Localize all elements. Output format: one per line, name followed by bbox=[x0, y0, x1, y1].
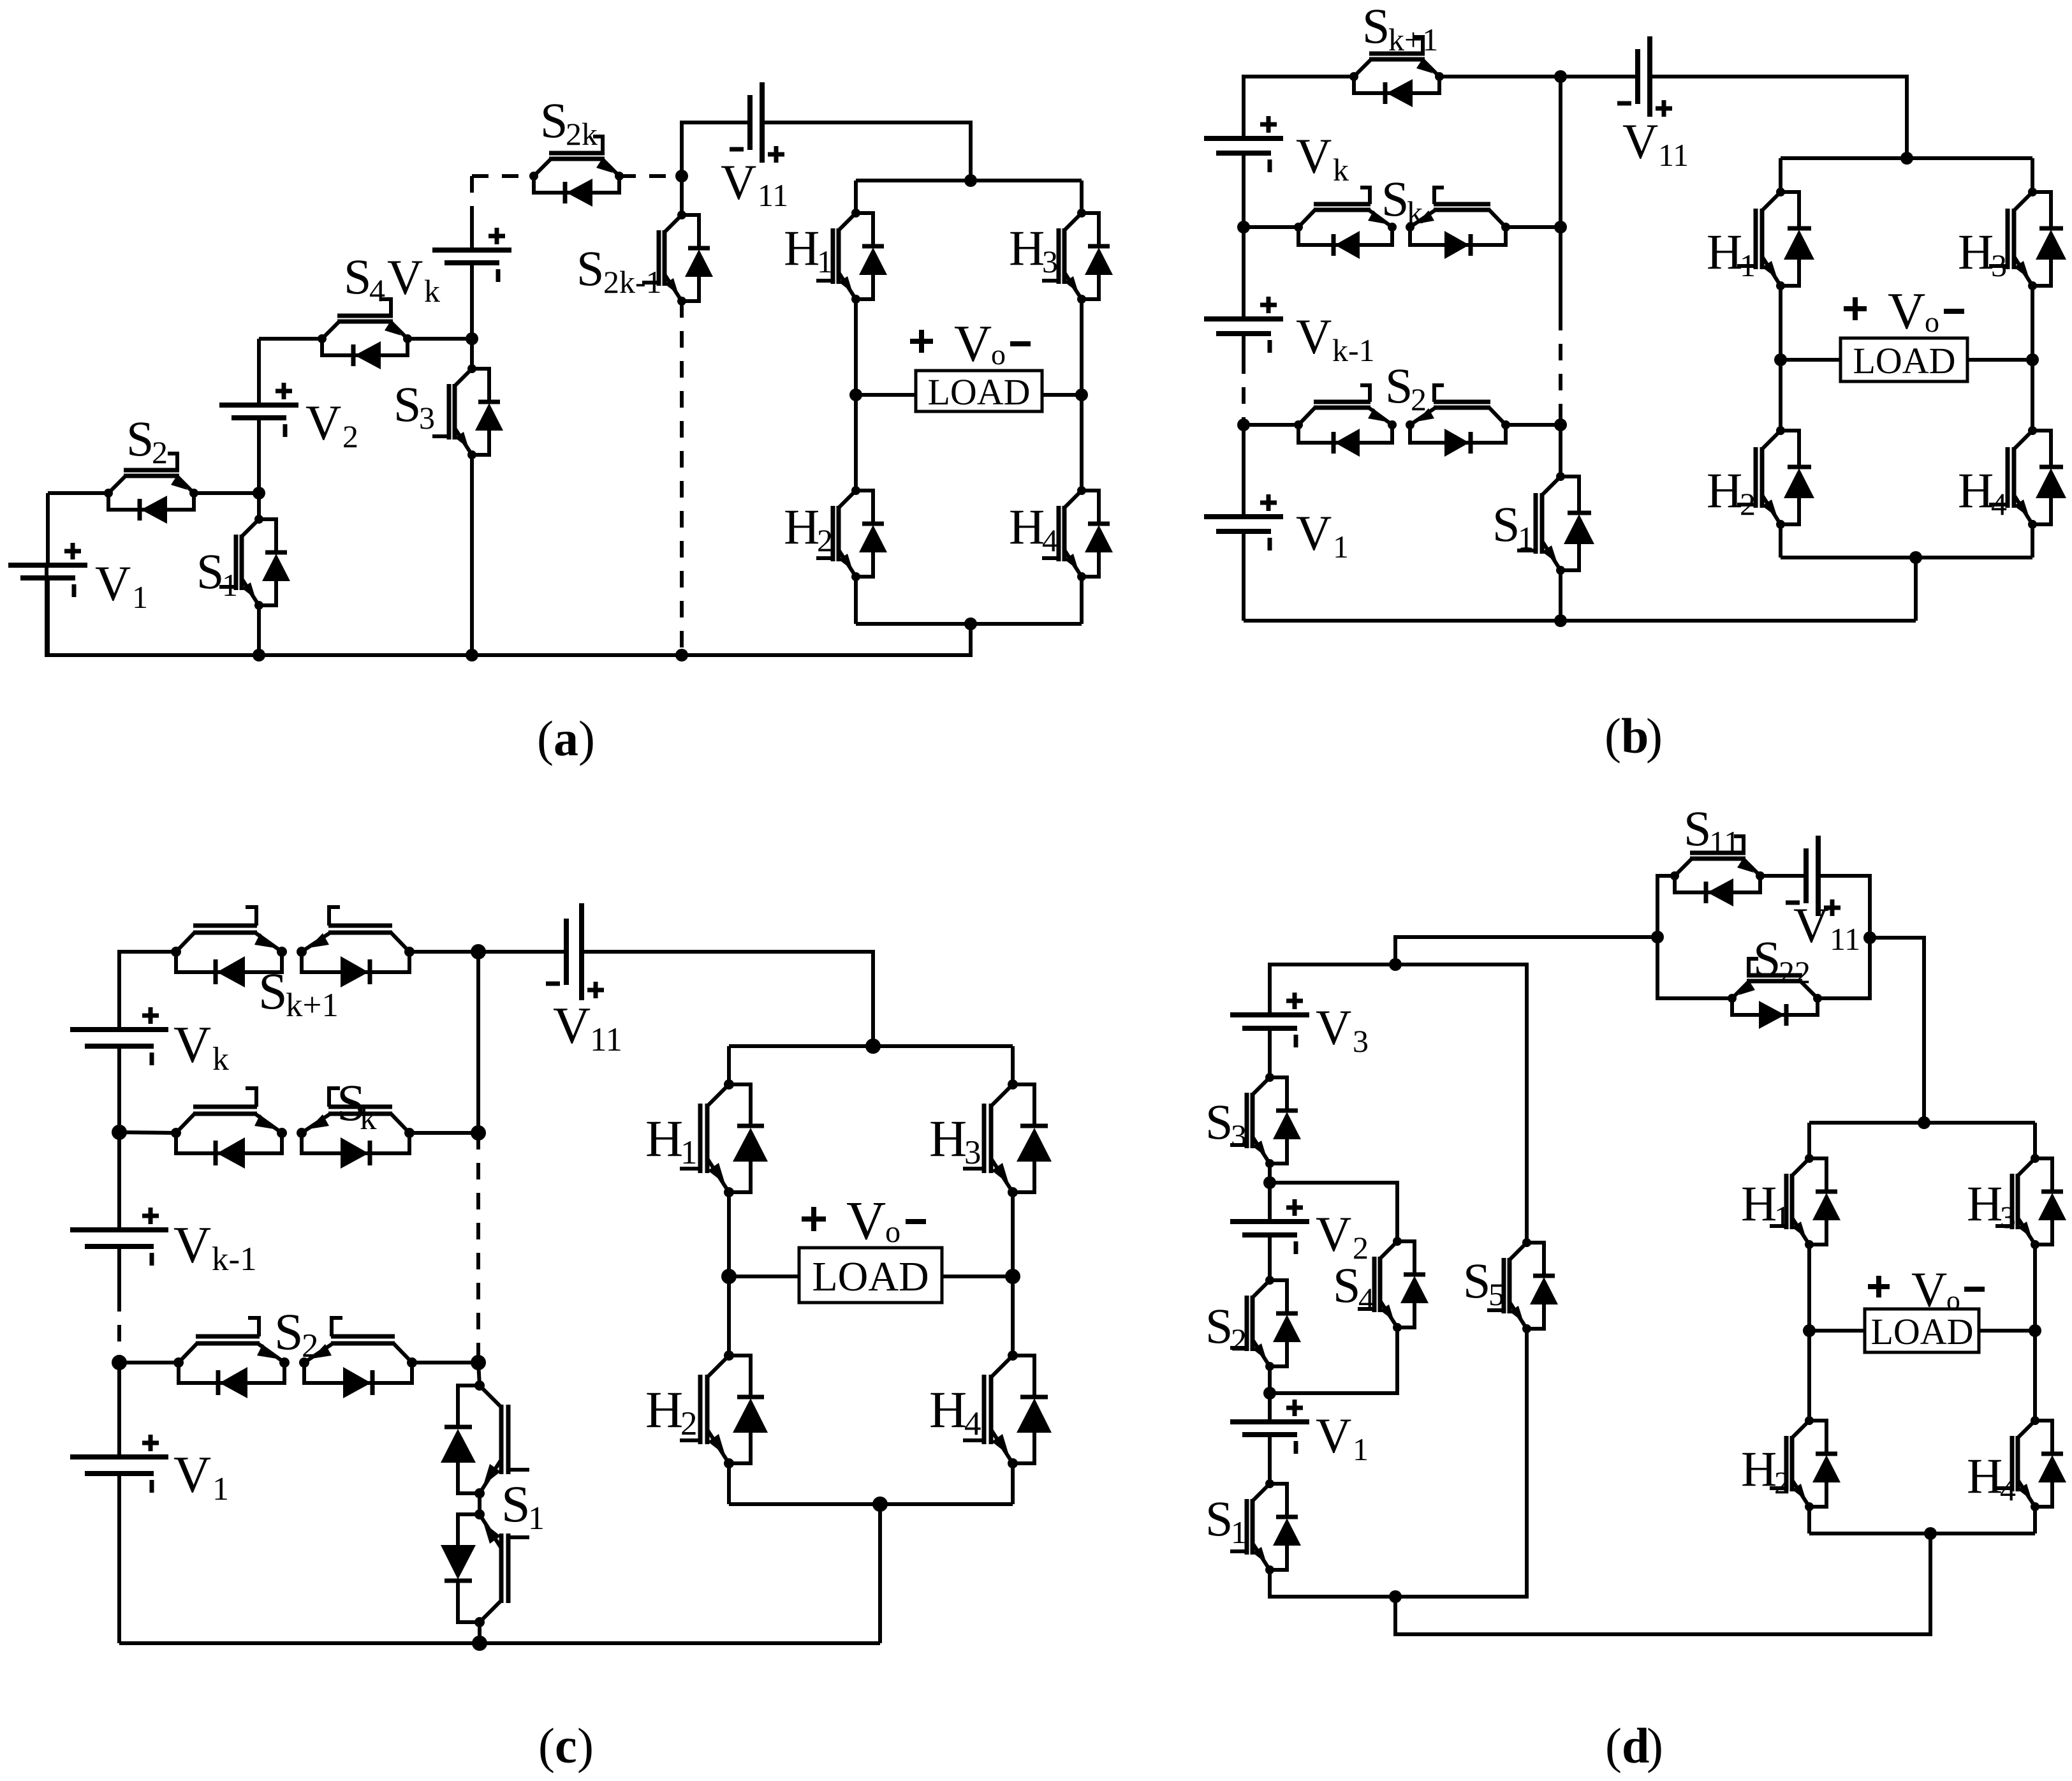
H-bridge top rail d bbox=[1809, 1116, 2035, 1129]
transistor Sk+1 bbox=[1349, 37, 1444, 107]
transistor H1 d bbox=[1770, 1123, 1841, 1249]
svg-text:a: a bbox=[554, 711, 578, 766]
wire rail to Sk bbox=[1244, 225, 1298, 229]
label V3 bbox=[1316, 1000, 1369, 1059]
mid rail right c bbox=[1005, 1192, 1020, 1284]
label H1 c bbox=[645, 1109, 698, 1171]
load label Vo d bbox=[1868, 1262, 1985, 1317]
transistor H1 bbox=[816, 181, 887, 304]
svg-text:H: H bbox=[1741, 1441, 1777, 1496]
svg-text:3: 3 bbox=[964, 1134, 981, 1171]
svg-text:S: S bbox=[1492, 496, 1520, 552]
svg-text:2k-1: 2k-1 bbox=[603, 264, 662, 300]
svg-text:3: 3 bbox=[1991, 248, 2007, 283]
svg-text:S: S bbox=[258, 962, 288, 1020]
wire node T to battery V11 bbox=[1561, 75, 1638, 78]
transistor H2 b bbox=[1737, 360, 1814, 558]
label Vk bbox=[387, 249, 440, 309]
label S1 c bbox=[501, 1475, 545, 1537]
bottom return wire d bbox=[1395, 1533, 1930, 1634]
svg-text:V: V bbox=[1888, 282, 1925, 340]
label H3 c bbox=[929, 1109, 981, 1171]
mid rail left c bbox=[721, 1192, 737, 1284]
label S2k bbox=[540, 92, 598, 152]
svg-text:1: 1 bbox=[680, 1134, 698, 1171]
left rail dashed segment bbox=[1242, 357, 1245, 425]
wire S2 to node A bbox=[194, 491, 259, 495]
battery Vk c bbox=[70, 1007, 168, 1132]
label S2 b bbox=[1385, 358, 1427, 417]
svg-text:1: 1 bbox=[1231, 1514, 1247, 1550]
battery V11 b bbox=[1617, 36, 1672, 117]
svg-text:V: V bbox=[95, 556, 131, 611]
node rail S2 c bbox=[112, 1355, 127, 1370]
svg-text:2: 2 bbox=[1740, 486, 1756, 522]
svg-text:S: S bbox=[1362, 0, 1390, 54]
svg-text:V: V bbox=[1316, 1000, 1351, 1055]
svg-text:S: S bbox=[1753, 931, 1781, 986]
wire H3 to mid rail bbox=[1075, 299, 1088, 401]
label S1 b bbox=[1492, 496, 1534, 556]
wire Sk to center column bbox=[1506, 221, 1567, 233]
label H4 d bbox=[1967, 1448, 2016, 1507]
transistor S1 d bbox=[1230, 1435, 1301, 1574]
caption (c) bbox=[538, 1718, 594, 1773]
label H4 c bbox=[929, 1380, 981, 1442]
mid rail left b bbox=[1774, 286, 1787, 366]
load box LOAD bbox=[856, 371, 1082, 413]
svg-text:5: 5 bbox=[1488, 1276, 1504, 1312]
svg-text:H: H bbox=[784, 220, 819, 276]
transistor S3 bbox=[432, 339, 503, 655]
label S1 d bbox=[1205, 1491, 1247, 1550]
wire S5 bottom to node B3 bbox=[1395, 1329, 1527, 1597]
wire rail to Sk c bbox=[119, 1132, 176, 1133]
svg-text:k-1: k-1 bbox=[1332, 332, 1375, 368]
wire node C up to battery V11 bbox=[682, 122, 750, 176]
H-bridge top rail bbox=[856, 174, 1082, 187]
node B1 junction bbox=[1263, 1164, 1276, 1189]
load box d bbox=[1809, 1309, 2035, 1352]
svg-text:H: H bbox=[1958, 462, 1994, 518]
label H4 b bbox=[1958, 462, 2007, 522]
svg-text:4: 4 bbox=[1991, 486, 2007, 522]
H-bridge bottom rail b bbox=[1781, 551, 2032, 564]
battery V2 d bbox=[1230, 1183, 1309, 1254]
svg-text:k+1: k+1 bbox=[286, 987, 339, 1024]
battery Vk-1 c bbox=[70, 1132, 168, 1295]
label H4 bbox=[1009, 499, 1058, 558]
wire T2 to S22 bbox=[1657, 937, 1732, 998]
svg-text:S: S bbox=[1381, 171, 1409, 226]
svg-text:V: V bbox=[1296, 128, 1332, 184]
bottom return rail bbox=[47, 565, 971, 661]
switch Sk+1 bidirectional c bbox=[171, 907, 415, 987]
svg-text:1: 1 bbox=[1333, 529, 1349, 565]
H-bridge bottom rail bbox=[856, 617, 1082, 630]
svg-text:k: k bbox=[1333, 152, 1349, 188]
label H1 d bbox=[1741, 1176, 1790, 1235]
svg-text:1: 1 bbox=[1740, 248, 1756, 283]
transistor S1 lower c bbox=[441, 1493, 529, 1643]
svg-text:H: H bbox=[1009, 220, 1045, 276]
label H2 b bbox=[1707, 462, 1756, 522]
label Sk+1 bbox=[1362, 0, 1438, 57]
transistor H2 d bbox=[1770, 1331, 1841, 1533]
label V1 d bbox=[1316, 1408, 1369, 1467]
svg-text:LOAD: LOAD bbox=[812, 1253, 929, 1300]
svg-text:1: 1 bbox=[212, 1471, 229, 1507]
svg-text:2: 2 bbox=[817, 522, 833, 558]
node A junction bbox=[253, 487, 265, 499]
transistor S2k bbox=[529, 137, 624, 207]
svg-text:3: 3 bbox=[2000, 1199, 2016, 1235]
transistor S4 d bbox=[1358, 1237, 1429, 1332]
svg-text:1: 1 bbox=[222, 567, 238, 603]
switch S2 bidirectional c bbox=[173, 1318, 417, 1398]
label S5 bbox=[1463, 1253, 1504, 1312]
label V11 bbox=[721, 154, 788, 213]
svg-text:H: H bbox=[1009, 499, 1045, 554]
svg-text:11: 11 bbox=[1830, 921, 1860, 957]
transistor H4 c bbox=[963, 1276, 1052, 1504]
svg-text:d: d bbox=[1622, 1718, 1649, 1773]
svg-text:c: c bbox=[555, 1718, 577, 1773]
svg-text:H: H bbox=[784, 499, 819, 554]
transistor S1 upper c bbox=[441, 1363, 529, 1498]
wire dashed S2k to node C bbox=[619, 174, 682, 178]
svg-text:2k: 2k bbox=[566, 116, 598, 152]
wire S2 to center c bbox=[412, 1355, 486, 1370]
svg-text:): ) bbox=[578, 711, 595, 766]
wire rail to S2 b bbox=[1244, 423, 1298, 427]
label S2 bbox=[126, 411, 168, 470]
svg-text:S: S bbox=[344, 249, 371, 304]
label V2 bbox=[305, 395, 358, 454]
battery V3 bbox=[1230, 993, 1309, 1047]
svg-text:H: H bbox=[645, 1109, 683, 1167]
wire dashed S2k-1 to bottom rail bbox=[680, 301, 684, 655]
wire S4 to node B2 bbox=[1270, 1327, 1397, 1393]
svg-text:S: S bbox=[1205, 1094, 1233, 1149]
load box c bbox=[729, 1248, 1013, 1303]
battery V2 bbox=[219, 339, 298, 493]
svg-text:S: S bbox=[1463, 1253, 1490, 1308]
svg-text:V: V bbox=[1622, 114, 1658, 169]
label H2 d bbox=[1741, 1441, 1790, 1500]
svg-text:k: k bbox=[360, 1100, 377, 1137]
svg-text:k+1: k+1 bbox=[1388, 22, 1438, 57]
label H2 c bbox=[645, 1380, 698, 1442]
bottom rail c bbox=[119, 1504, 880, 1651]
svg-text:2: 2 bbox=[342, 418, 358, 454]
svg-text:S: S bbox=[393, 376, 421, 432]
node B junction bbox=[466, 332, 478, 345]
label S4 d bbox=[1333, 1257, 1374, 1317]
transistor S3 d bbox=[1230, 1028, 1301, 1168]
svg-text:11: 11 bbox=[758, 177, 788, 213]
bottom rail b bbox=[1244, 558, 1916, 627]
svg-text:2: 2 bbox=[680, 1405, 698, 1442]
wire S4 to node B bbox=[408, 337, 472, 341]
svg-text:k: k bbox=[212, 1041, 229, 1077]
label S1 bbox=[196, 543, 238, 603]
svg-text:o: o bbox=[1925, 306, 1939, 338]
svg-text:H: H bbox=[929, 1109, 967, 1167]
battery Vk b bbox=[1204, 116, 1283, 227]
caption (d) bbox=[1605, 1718, 1663, 1773]
svg-text:11: 11 bbox=[1709, 824, 1740, 860]
wire S22 to node T3 bbox=[1818, 938, 1870, 998]
svg-text:S: S bbox=[274, 1303, 304, 1361]
svg-text:V: V bbox=[954, 314, 992, 373]
svg-text:S: S bbox=[1385, 358, 1413, 413]
label V1 b bbox=[1296, 505, 1349, 565]
svg-text:S: S bbox=[1333, 1257, 1360, 1313]
svg-text:H: H bbox=[1958, 224, 1994, 279]
mid rail right d bbox=[2029, 1245, 2041, 1337]
svg-text:H: H bbox=[1967, 1448, 2002, 1504]
top feed wire d bbox=[1270, 958, 1402, 1015]
wire S1 to node B3 bbox=[1270, 1570, 1395, 1597]
svg-text:H: H bbox=[929, 1380, 967, 1438]
svg-text:k: k bbox=[424, 273, 440, 309]
svg-text:(: ( bbox=[1605, 708, 1621, 764]
wire dashed to S2k bbox=[472, 174, 534, 178]
svg-text:3: 3 bbox=[1042, 244, 1058, 279]
transistor H3 d bbox=[1995, 1123, 2066, 1249]
label S2k-1 bbox=[577, 240, 662, 300]
node T3 junction bbox=[1863, 931, 1876, 944]
H-bridge bottom rail c bbox=[729, 1496, 1013, 1512]
battery V11 bbox=[730, 82, 784, 163]
svg-text:V: V bbox=[173, 1216, 211, 1274]
svg-text:2: 2 bbox=[302, 1327, 319, 1364]
load label Vo c bbox=[802, 1190, 926, 1251]
label H1 bbox=[784, 220, 833, 279]
svg-text:2: 2 bbox=[1774, 1465, 1790, 1500]
svg-text:11: 11 bbox=[590, 1021, 622, 1058]
battery V1 c bbox=[70, 1363, 168, 1643]
node rail Sk c bbox=[112, 1125, 127, 1140]
label Vk b bbox=[1296, 128, 1349, 188]
node rail S2 junction bbox=[1237, 418, 1250, 431]
svg-text:): ) bbox=[577, 1718, 594, 1773]
svg-text:o: o bbox=[885, 1215, 900, 1249]
svg-text:(: ( bbox=[537, 711, 554, 766]
label H3 d bbox=[1967, 1176, 2016, 1235]
switch S2 bidirectional bbox=[1294, 385, 1510, 457]
svg-text:V: V bbox=[305, 395, 341, 450]
transistor H2 bbox=[816, 395, 887, 624]
svg-text:H: H bbox=[1741, 1176, 1777, 1231]
wire T2 to S11 bbox=[1657, 876, 1675, 937]
svg-text:H: H bbox=[645, 1380, 683, 1438]
svg-text:4: 4 bbox=[1358, 1281, 1374, 1317]
wire V11 to H-bridge c bbox=[582, 952, 873, 1046]
svg-text:V: V bbox=[1793, 898, 1829, 953]
svg-text:1: 1 bbox=[132, 579, 148, 615]
svg-text:V: V bbox=[1316, 1206, 1351, 1262]
svg-text:LOAD: LOAD bbox=[1870, 1311, 1973, 1352]
label V2 d bbox=[1316, 1206, 1369, 1266]
node Tc junction bbox=[471, 944, 486, 959]
svg-text:3: 3 bbox=[1353, 1023, 1369, 1059]
label H2 bbox=[784, 499, 833, 558]
wire V1 top to S2 bbox=[48, 491, 108, 495]
transistor H3 c bbox=[963, 1046, 1052, 1197]
node C junction bbox=[675, 170, 688, 182]
svg-text:b: b bbox=[1621, 708, 1649, 764]
battery V1 b bbox=[1204, 425, 1283, 621]
wire dashed above Vk bbox=[470, 176, 474, 250]
svg-text:V: V bbox=[173, 1445, 211, 1504]
node T junction bbox=[1554, 70, 1567, 83]
transistor S1 b bbox=[1517, 425, 1594, 621]
wire T1 to S5 column bbox=[1395, 964, 1527, 1243]
transistor S2k-1 bbox=[642, 176, 713, 306]
svg-text:(: ( bbox=[1605, 1718, 1622, 1773]
battery Vk-1 bbox=[1204, 227, 1283, 357]
svg-text:22: 22 bbox=[1779, 954, 1811, 990]
wire V11 to H-bridge top bbox=[762, 122, 971, 181]
wire V11 to node T3 bbox=[1818, 876, 1870, 938]
battery V11 c bbox=[546, 903, 604, 1000]
center column dashed bbox=[1559, 227, 1562, 425]
switch Sk bidirectional bbox=[1294, 188, 1510, 259]
node T2 junction bbox=[1651, 931, 1664, 943]
svg-text:1: 1 bbox=[528, 1500, 545, 1537]
svg-text:): ) bbox=[1647, 1718, 1663, 1773]
label Vk c bbox=[173, 1016, 229, 1077]
node B2 junction bbox=[1263, 1365, 1276, 1400]
label Sk+1 c bbox=[258, 962, 339, 1024]
battery V1 d bbox=[1230, 1393, 1309, 1454]
node B3 junction bbox=[1389, 1590, 1402, 1603]
svg-text:S: S bbox=[126, 411, 154, 466]
left rail top bbox=[1244, 77, 1354, 138]
center column dashed c bbox=[476, 1133, 480, 1363]
transistor S22 bbox=[1728, 959, 1822, 1029]
label S2 c bbox=[274, 1303, 319, 1364]
circuit (d): 3-source asymmetric topology bbox=[1205, 801, 2066, 1773]
svg-text:11: 11 bbox=[1658, 137, 1689, 173]
load label Vo bbox=[910, 314, 1031, 373]
svg-text:S: S bbox=[196, 543, 224, 599]
load box b bbox=[1781, 338, 2032, 381]
svg-text:H: H bbox=[1707, 224, 1742, 279]
left rail dashed c bbox=[117, 1295, 121, 1363]
label Vk-1 c bbox=[173, 1216, 257, 1278]
svg-text:k: k bbox=[1407, 195, 1423, 230]
svg-text:2: 2 bbox=[1411, 381, 1427, 417]
label V11 c bbox=[553, 996, 622, 1058]
circuit (c): topology with bidirectional switch rows bbox=[70, 903, 1052, 1773]
H-bridge top rail c bbox=[729, 1038, 1013, 1054]
wire V11 to H-bridge bbox=[1650, 77, 1907, 158]
node rail Sk junction bbox=[1237, 221, 1250, 233]
svg-text:V: V bbox=[846, 1190, 886, 1251]
svg-text:2: 2 bbox=[152, 434, 168, 470]
wire S2 to center column b bbox=[1506, 418, 1567, 431]
transistor H4 d bbox=[1995, 1331, 2066, 1533]
svg-text:H: H bbox=[1967, 1176, 2002, 1231]
svg-text:H: H bbox=[1707, 462, 1742, 518]
transistor S5 bbox=[1487, 1238, 1558, 1333]
wire Sk+1 to node T bbox=[1439, 75, 1561, 78]
svg-text:4: 4 bbox=[1042, 522, 1058, 558]
transistor S4 bbox=[318, 299, 412, 369]
left rail top c bbox=[119, 952, 176, 1030]
svg-text:1: 1 bbox=[1353, 1431, 1369, 1467]
svg-text:k-1: k-1 bbox=[212, 1241, 257, 1278]
transistor H1 c bbox=[680, 1046, 768, 1197]
caption (a) bbox=[537, 711, 595, 766]
transistor H4 bbox=[1042, 395, 1113, 624]
circuit (a): cascaded half-bridge multilevel inverter bbox=[8, 82, 1113, 766]
svg-text:S: S bbox=[501, 1475, 531, 1533]
transistor H4 b bbox=[1989, 360, 2066, 558]
svg-text:3: 3 bbox=[419, 400, 435, 436]
svg-text:S: S bbox=[1205, 1491, 1233, 1546]
svg-text:4: 4 bbox=[2000, 1472, 2016, 1507]
wire rail to S2 c bbox=[119, 1361, 179, 1364]
wire T3 to H-bridge d bbox=[1870, 938, 1924, 1123]
wire Sk to center c bbox=[409, 1125, 486, 1141]
label V1 bbox=[95, 556, 148, 615]
transistor H3 bbox=[1042, 181, 1113, 304]
svg-text:V: V bbox=[173, 1016, 211, 1074]
svg-text:V: V bbox=[1296, 309, 1332, 364]
label Sk c bbox=[337, 1074, 377, 1137]
label H3 bbox=[1009, 220, 1058, 279]
wire H1 to mid rail bbox=[849, 299, 862, 401]
transistor H1 b bbox=[1737, 158, 1814, 290]
battery V1 bbox=[8, 493, 87, 655]
H-bridge bottom rail d bbox=[1809, 1527, 2035, 1540]
load label Vo b bbox=[1844, 282, 1964, 340]
circuit (b): series-connected sources with bidirectional switches bbox=[1204, 0, 2066, 764]
svg-text:S: S bbox=[1205, 1298, 1233, 1354]
label H3 b bbox=[1958, 224, 2007, 283]
label V1 c bbox=[173, 1445, 229, 1507]
svg-text:2: 2 bbox=[1231, 1322, 1247, 1357]
center column upper c bbox=[476, 952, 480, 1133]
label S4 bbox=[344, 249, 385, 308]
battery V11 d bbox=[1760, 836, 1841, 916]
svg-text:1: 1 bbox=[1518, 520, 1534, 556]
wire to S4 bbox=[259, 337, 322, 341]
svg-text:LOAD: LOAD bbox=[1853, 340, 1955, 381]
label V11 b bbox=[1622, 114, 1689, 173]
svg-text:3: 3 bbox=[1231, 1118, 1247, 1153]
transistor H2 c bbox=[680, 1276, 768, 1504]
wire node Tc to V11 c bbox=[478, 950, 566, 954]
transistor S11 bbox=[1670, 836, 1765, 906]
mid rail right b bbox=[2026, 286, 2039, 366]
transistor S1 bbox=[219, 493, 290, 655]
svg-text:1: 1 bbox=[817, 244, 833, 279]
switch Sk bidirectional c bbox=[171, 1088, 415, 1169]
svg-text:(: ( bbox=[538, 1718, 555, 1773]
label S3 d bbox=[1205, 1094, 1247, 1153]
label H1 b bbox=[1707, 224, 1756, 283]
label Sk b bbox=[1381, 171, 1423, 230]
svg-text:V: V bbox=[1316, 1408, 1351, 1463]
label S2 d bbox=[1205, 1298, 1247, 1357]
transistor H3 b bbox=[1989, 158, 2066, 290]
node T1 up link bbox=[1395, 937, 1657, 964]
